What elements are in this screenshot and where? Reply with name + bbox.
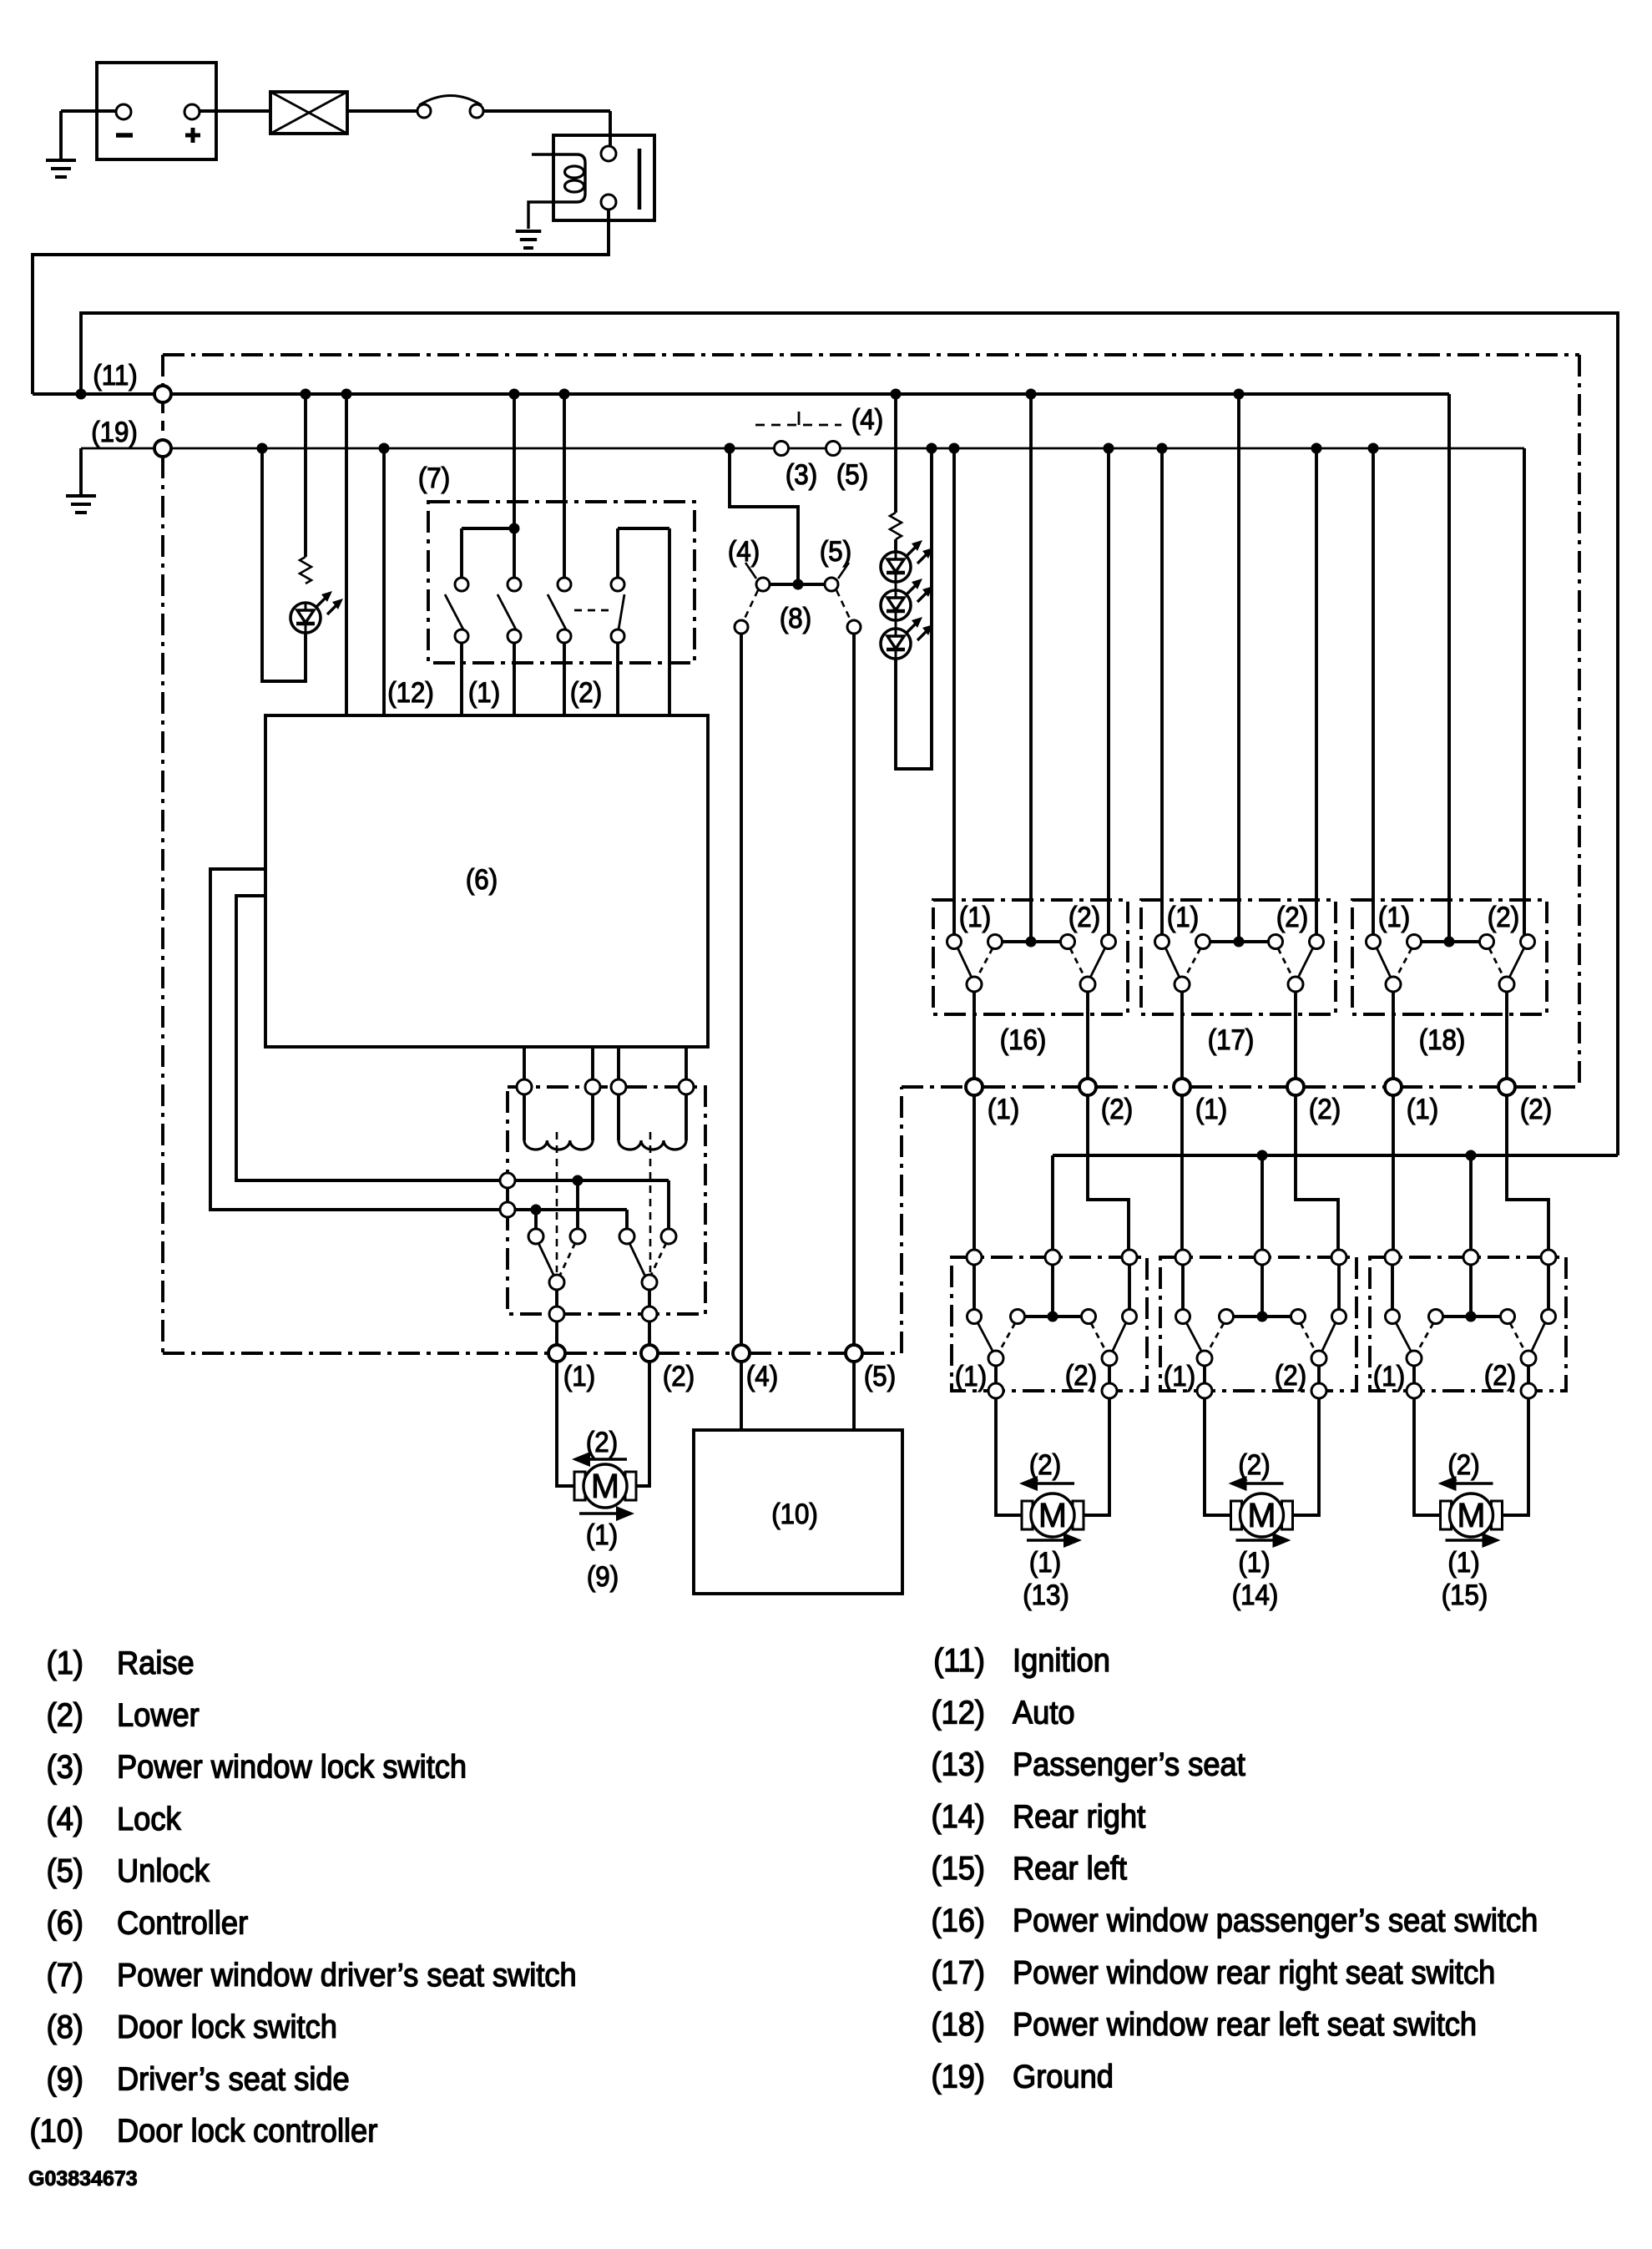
svg-text:(2): (2) — [1276, 901, 1308, 933]
svg-text:Controller: Controller — [117, 1904, 248, 1940]
svg-text:Power window rear right seat s: Power window rear right seat switch — [1013, 1954, 1495, 1990]
svg-text:(1): (1) — [1164, 1360, 1195, 1392]
svg-text:(1): (1) — [959, 901, 991, 933]
svg-text:(17): (17) — [1208, 1023, 1255, 1056]
svg-text:(2): (2) — [570, 676, 602, 709]
svg-text:(2): (2) — [586, 1426, 618, 1458]
svg-text:Driver’s seat side: Driver’s seat side — [117, 2060, 350, 2096]
svg-text:(19): (19) — [932, 2058, 985, 2094]
svg-text:(1): (1) — [586, 1519, 618, 1551]
svg-text:(5): (5) — [864, 1360, 896, 1392]
svg-text:(11): (11) — [93, 359, 137, 392]
svg-text:(10): (10) — [771, 1498, 818, 1530]
svg-text:(16): (16) — [932, 1902, 985, 1938]
svg-text:Power window lock switch: Power window lock switch — [117, 1748, 467, 1784]
svg-text:(2): (2) — [1101, 1093, 1133, 1125]
svg-text:(6): (6) — [466, 863, 498, 896]
svg-text:(1): (1) — [468, 676, 500, 709]
svg-text:(2): (2) — [1065, 1359, 1097, 1392]
svg-text:Door lock switch: Door lock switch — [117, 2009, 337, 2044]
svg-text:Raise: Raise — [117, 1645, 195, 1680]
svg-text:(2): (2) — [47, 1696, 83, 1732]
svg-text:(2): (2) — [1447, 1448, 1479, 1481]
svg-text:(2): (2) — [1029, 1448, 1061, 1481]
svg-text:(1): (1) — [1373, 1360, 1405, 1392]
svg-text:(15): (15) — [1442, 1579, 1488, 1611]
svg-text:(7): (7) — [418, 462, 450, 494]
svg-text:(2): (2) — [1484, 1359, 1516, 1392]
svg-text:(1): (1) — [1447, 1546, 1479, 1579]
svg-text:(1): (1) — [563, 1360, 595, 1392]
svg-text:(4): (4) — [746, 1360, 778, 1392]
svg-text:Ground: Ground — [1013, 2058, 1114, 2094]
svg-text:M: M — [591, 1467, 619, 1505]
svg-text:G03834673: G03834673 — [28, 2167, 138, 2191]
svg-text:(2): (2) — [663, 1360, 695, 1392]
svg-text:(1): (1) — [47, 1645, 83, 1680]
svg-text:(1): (1) — [1378, 901, 1410, 933]
svg-text:(4): (4) — [728, 535, 760, 568]
svg-text:(7): (7) — [47, 1957, 83, 1993]
svg-text:M: M — [1457, 1496, 1485, 1534]
svg-text:(16): (16) — [1000, 1023, 1047, 1056]
svg-text:(5): (5) — [820, 535, 851, 568]
svg-text:(1): (1) — [1167, 901, 1199, 933]
svg-text:(6): (6) — [47, 1904, 83, 1940]
svg-text:Lock: Lock — [117, 1801, 181, 1837]
svg-text:(1): (1) — [1195, 1093, 1227, 1125]
svg-text:(1): (1) — [955, 1360, 987, 1392]
svg-text:(8): (8) — [780, 602, 811, 634]
svg-text:(2): (2) — [1488, 901, 1519, 933]
svg-text:(1): (1) — [1029, 1546, 1061, 1579]
svg-text:Rear right: Rear right — [1013, 1798, 1146, 1834]
svg-text:(2): (2) — [1520, 1093, 1552, 1125]
svg-text:(17): (17) — [932, 1954, 985, 1990]
svg-text:(4): (4) — [851, 403, 883, 436]
svg-text:Lower: Lower — [117, 1696, 200, 1732]
svg-text:(12): (12) — [387, 676, 434, 709]
svg-text:(3): (3) — [47, 1748, 83, 1784]
svg-text:(15): (15) — [932, 1850, 985, 1886]
svg-text:(11): (11) — [933, 1642, 985, 1678]
svg-text:(14): (14) — [1232, 1579, 1279, 1611]
svg-text:Unlock: Unlock — [117, 1852, 210, 1888]
svg-text:M: M — [1247, 1496, 1276, 1534]
svg-text:(8): (8) — [47, 2009, 83, 2044]
svg-text:Power window rear left seat sw: Power window rear left seat switch — [1013, 2006, 1477, 2042]
svg-text:Rear left: Rear left — [1013, 1850, 1128, 1886]
svg-text:(5): (5) — [836, 458, 868, 491]
svg-text:(13): (13) — [1023, 1579, 1069, 1611]
svg-text:(2): (2) — [1309, 1093, 1341, 1125]
svg-text:(1): (1) — [1238, 1546, 1270, 1579]
svg-text:Power window driver’s seat swi: Power window driver’s seat switch — [117, 1957, 577, 1993]
svg-text:(1): (1) — [1407, 1093, 1438, 1125]
svg-text:(10): (10) — [30, 2113, 83, 2149]
svg-text:(14): (14) — [932, 1798, 985, 1834]
svg-text:(9): (9) — [587, 1560, 619, 1593]
svg-text:(4): (4) — [47, 1801, 83, 1837]
svg-text:Door lock controller: Door lock controller — [117, 2113, 377, 2149]
svg-text:Passenger’s seat: Passenger’s seat — [1013, 1746, 1245, 1782]
svg-text:(2): (2) — [1275, 1359, 1306, 1392]
svg-text:(9): (9) — [47, 2060, 83, 2096]
svg-text:(19): (19) — [91, 416, 138, 448]
svg-text:M: M — [1038, 1496, 1067, 1534]
svg-text:(1): (1) — [988, 1093, 1019, 1125]
svg-text:Ignition: Ignition — [1013, 1642, 1110, 1678]
svg-text:(12): (12) — [932, 1694, 985, 1730]
svg-text:Power window passenger’s seat: Power window passenger’s seat switch — [1013, 1902, 1538, 1938]
svg-text:(18): (18) — [932, 2006, 985, 2042]
svg-text:(13): (13) — [932, 1746, 985, 1782]
svg-text:(2): (2) — [1238, 1448, 1270, 1481]
svg-text:Auto: Auto — [1013, 1694, 1075, 1730]
svg-text:(3): (3) — [786, 458, 817, 491]
svg-text:(5): (5) — [47, 1852, 83, 1888]
svg-text:(2): (2) — [1068, 901, 1100, 933]
svg-text:(18): (18) — [1419, 1023, 1466, 1056]
